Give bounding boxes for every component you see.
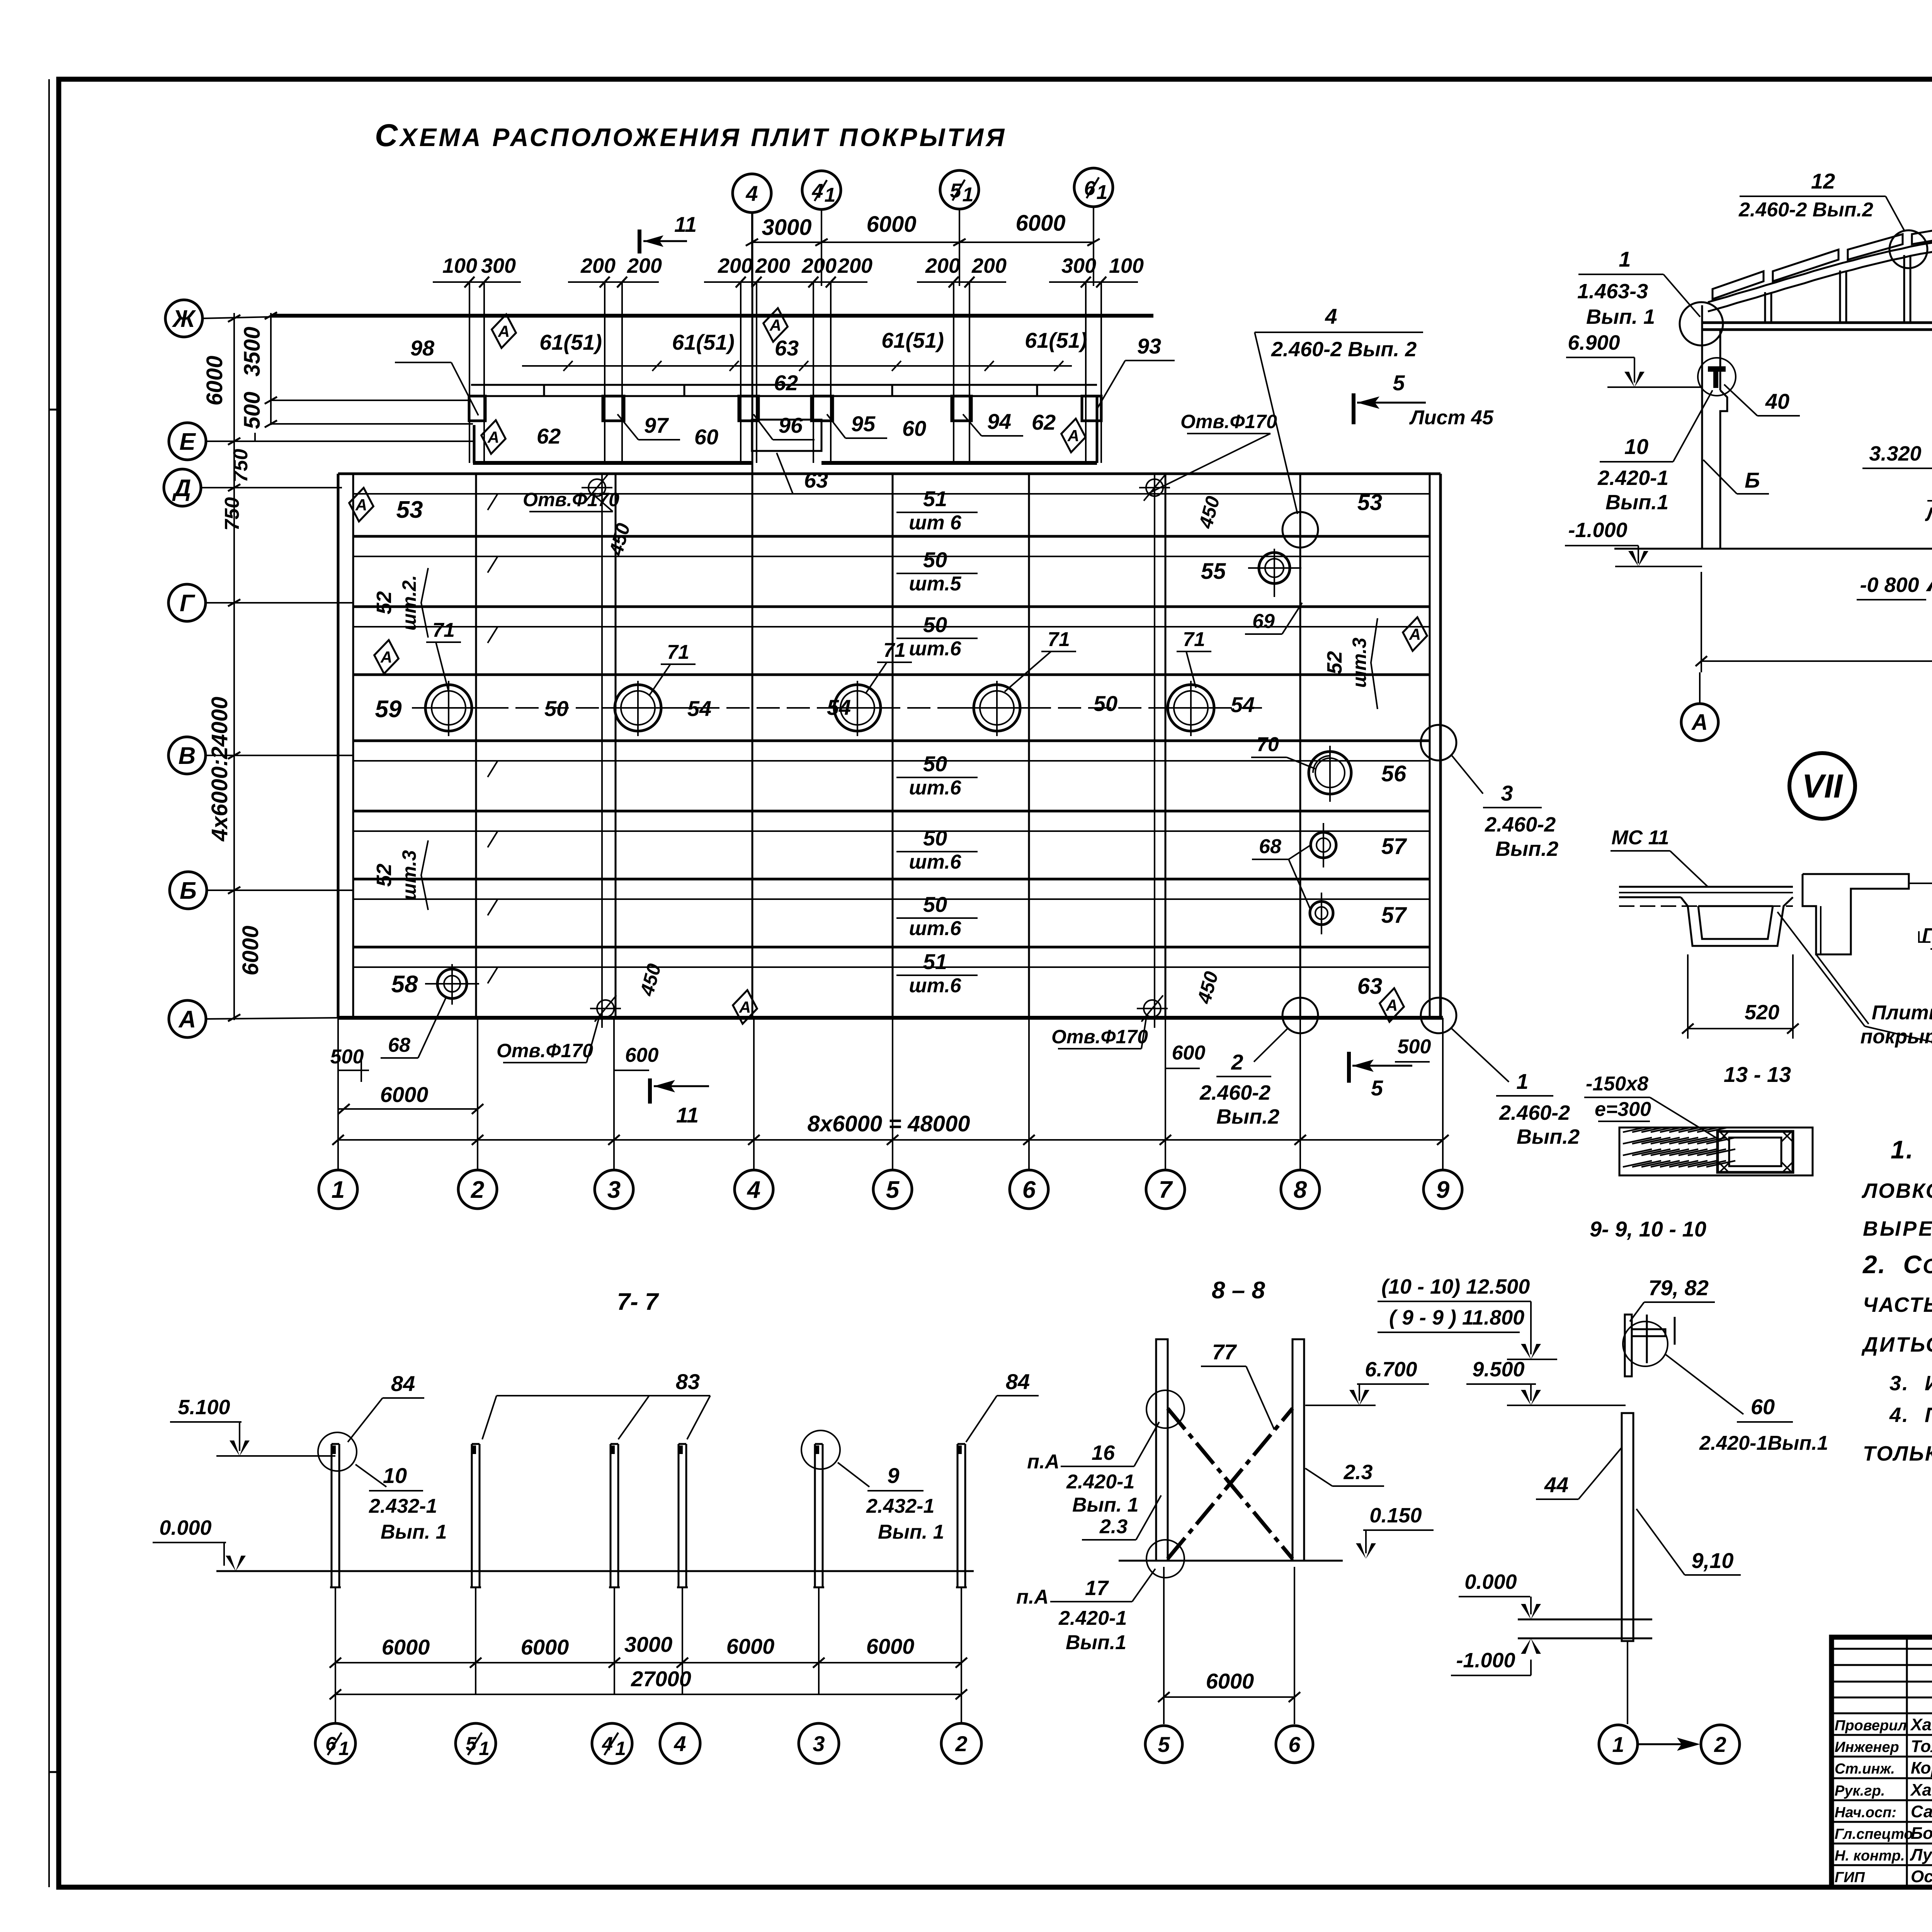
plan: top band labels 61(51) 62 63 93..98 (395, 328, 1175, 494)
plan: left dimension lines and rotated dim texts (202, 312, 277, 1021)
svg-text:А: А (355, 496, 367, 514)
svg-text:ЛОВКОЙ ОТВЕРСТИЙ ПО ПЕРИ: ЛОВКОЙ ОТВЕРСТИЙ ПО ПЕРИМЕТРУ С ПОСЛЕДУЮ… (1861, 1179, 1932, 1202)
svg-text:71: 71 (883, 639, 906, 662)
section 9-9: level -1.000 (1451, 1638, 1541, 1675)
svg-text:шт.6: шт.6 (909, 638, 961, 660)
section 9-9: axis circles 1 -> 2 (1599, 1725, 1740, 1764)
plan: row axis circles Ж Е Д Г В Б А (164, 300, 207, 1037)
svg-text:А: А (739, 998, 751, 1016)
svg-text:ГОСТ 5264-80-Т1-Δ8: ГОСТ 5264-80-Т1-Δ8 (1922, 924, 1932, 947)
svg-text:200: 200 (718, 254, 753, 277)
svg-text:Гл.спецто: Гл.спецто (1835, 1826, 1913, 1842)
svg-text:52: 52 (1323, 651, 1346, 674)
svg-text:Лист 43: Лист 43 (1925, 503, 1932, 525)
svg-text:3.320: 3.320 (1869, 442, 1921, 465)
plan: main field outline (338, 474, 1443, 1018)
svg-text:2. СОЕДИНЕНИЕ МЕТАЛЛИЧЕСКОЙ: 2. СОЕДИНЕНИЕ МЕТАЛЛИЧЕСКОЙ ЧАСТИ С ЖЕЛЕ… (1862, 1250, 1932, 1279)
svg-text:3500: 3500 (240, 327, 265, 376)
svg-text:Отв.Ф170: Отв.Ф170 (523, 489, 619, 510)
section 11-11: level -0.800 mid (1857, 573, 1932, 600)
section 9-9: foundation lines (1518, 1619, 1652, 1638)
svg-text:7: 7 (1159, 1177, 1173, 1203)
plan: field horizontal strip lines (353, 494, 1430, 967)
svg-text:1: 1 (332, 1177, 345, 1203)
svg-text:60: 60 (1751, 1395, 1775, 1419)
svg-text:А: А (487, 428, 499, 446)
plan: leader hooks (488, 494, 889, 983)
svg-text:84: 84 (1006, 1369, 1030, 1394)
svg-text:9: 9 (1436, 1177, 1450, 1203)
svg-text:500: 500 (1398, 1036, 1431, 1058)
svg-text:520: 520 (1745, 1001, 1779, 1024)
section 7-7: dim lines 6000... 27000 (330, 1632, 967, 1724)
svg-text:62: 62 (774, 371, 798, 395)
svg-text:А: А (769, 316, 781, 334)
svg-text:1: 1 (1097, 181, 1108, 204)
plan: small holes 55 56 57 58 70 68 69 (381, 549, 1407, 1058)
svg-text:шт.3: шт.3 (398, 850, 420, 900)
section 11-11: roof plates on top chord (1713, 222, 1932, 301)
section 9-9: label 9,10 (1636, 1509, 1741, 1575)
svg-text:4x6000:24000: 4x6000:24000 (207, 697, 232, 842)
svg-text:0.000: 0.000 (1464, 1570, 1517, 1594)
section 7-7: callout 9 2.432-1 Вып.1 (838, 1463, 944, 1543)
svg-text:84: 84 (391, 1371, 415, 1396)
svg-text:2.432-1: 2.432-1 (866, 1495, 934, 1517)
svg-text:6000: 6000 (1206, 1669, 1254, 1693)
svg-text:3. ИНДЕКС: 3. ИНДЕКС (1889, 1372, 1932, 1395)
svg-text:95: 95 (851, 412, 876, 436)
plan: callout circle 2 (1199, 998, 1318, 1128)
svg-text:Рук.гр.: Рук.гр. (1835, 1783, 1885, 1799)
svg-text:59: 59 (375, 696, 402, 723)
svg-text:Вып. 1: Вып. 1 (1586, 305, 1655, 328)
svg-text:50: 50 (923, 826, 947, 850)
svg-text:750: 750 (230, 449, 252, 483)
svg-text:Ж: Ж (172, 306, 196, 332)
svg-text:10: 10 (383, 1463, 407, 1488)
section 9-9: label 79,82 (1630, 1276, 1715, 1321)
svg-text:6.700: 6.700 (1365, 1358, 1417, 1381)
svg-text:шт.5: шт.5 (909, 573, 961, 595)
svg-text:А: А (1409, 625, 1421, 643)
svg-text:е=300: е=300 (1595, 1098, 1651, 1121)
section 11-11: axis circles А Д Е Ж (1681, 672, 1932, 741)
svg-text:шт.6: шт.6 (909, 777, 961, 799)
section 9-9 10-10 title (1590, 1217, 1706, 1241)
plan: top axis circles 4 4/1 5/1 6/1 (733, 168, 1113, 286)
svg-text:Инженер: Инженер (1835, 1739, 1899, 1755)
section 8-8: callout п.А 16 (1027, 1422, 1161, 1540)
svg-text:71: 71 (1048, 628, 1070, 651)
svg-text:62: 62 (1032, 410, 1056, 434)
svg-text:2.460-2 Вып.2: 2.460-2 Вып.2 (1738, 199, 1873, 221)
svg-text:В: В (179, 743, 196, 769)
svg-text:покрытия: покрытия (1861, 1026, 1932, 1048)
section 8-8: dim 6000 (1158, 1567, 1300, 1724)
svg-text:-150x8: -150x8 (1586, 1073, 1648, 1095)
svg-text:4: 4 (673, 1731, 686, 1756)
section 7-7: labels 84 83 84 (348, 1369, 1039, 1442)
detail 13-13 drawing: welded plate plan (1619, 1128, 1813, 1175)
detail 13-13 title (1724, 1062, 1791, 1087)
plan: marker diamonds А (top band) (490, 313, 519, 350)
svg-text:51: 51 (923, 949, 947, 974)
svg-text:( 9 - 9 ) 11.800: ( 9 - 9 ) 11.800 (1389, 1306, 1524, 1329)
section 11-11: bottom dim 24000 750 6000 (1696, 572, 1932, 672)
svg-text:5: 5 (1393, 371, 1405, 395)
svg-text:шт 6: шт 6 (909, 512, 962, 534)
svg-text:1: 1 (1619, 247, 1631, 271)
svg-text:шт.2.: шт.2. (398, 575, 420, 631)
svg-text:Вып.1: Вып.1 (1066, 1631, 1126, 1654)
svg-text:шт.6: шт.6 (909, 975, 961, 997)
svg-text:3000: 3000 (624, 1632, 673, 1656)
svg-text:9- 9, 10 - 10: 9- 9, 10 - 10 (1590, 1217, 1706, 1241)
section 11-11: level 6.900 (1566, 331, 1702, 387)
plan: top band row Ж line (270, 314, 1153, 318)
svg-text:51: 51 (923, 486, 947, 511)
svg-text:6.900: 6.900 (1568, 331, 1620, 354)
svg-text:Г: Г (180, 590, 196, 617)
svg-text:2.3: 2.3 (1343, 1461, 1372, 1484)
svg-text:1: 1 (338, 1738, 349, 1759)
svg-text:61(51): 61(51) (881, 328, 944, 352)
svg-text:50: 50 (923, 548, 947, 572)
svg-text:Лист 45: Лист 45 (1409, 406, 1494, 429)
svg-text:ГИП: ГИП (1835, 1869, 1865, 1886)
svg-text:ДИТЬСЯ ЗАВОДОМ ИЗГОТОВИТЕЛ: ДИТЬСЯ ЗАВОДОМ ИЗГОТОВИТЕЛЕМ. (1861, 1333, 1932, 1356)
svg-text:Вып. 1: Вып. 1 (878, 1521, 944, 1543)
svg-text:-0 800: -0 800 (1860, 573, 1919, 597)
svg-text:1: 1 (825, 184, 836, 206)
svg-text:50: 50 (923, 612, 947, 637)
svg-text:750: 750 (221, 497, 243, 531)
detail VII drawing: plate sections (1619, 874, 1909, 954)
svg-text:6: 6 (1084, 177, 1096, 200)
section 11-11: callout 10 2.420-1 (1597, 390, 1713, 514)
svg-text:500: 500 (330, 1046, 364, 1068)
svg-text:2.460-2: 2.460-2 (1499, 1101, 1570, 1124)
plan: field vertical grid lines (476, 213, 1300, 1028)
section 8-8 title (1212, 1277, 1265, 1304)
plan: dim 500 right bottom (1395, 1036, 1431, 1062)
svg-text:2.420-1: 2.420-1 (1597, 466, 1668, 490)
section 11-11: floor line 0.000 (1614, 548, 1932, 550)
svg-text:5: 5 (1158, 1732, 1170, 1757)
svg-text:68: 68 (1259, 835, 1281, 858)
svg-text:63: 63 (804, 468, 828, 492)
svg-text:58: 58 (391, 971, 418, 998)
detail 12-12 labels (1919, 812, 1932, 954)
section 9-9: top bracket with circle (1623, 1315, 1675, 1376)
svg-text:Плиты: Плиты (1872, 1002, 1932, 1024)
title block signature grid (1832, 1637, 1932, 1887)
svg-text:Ст.инж.: Ст.инж. (1835, 1761, 1895, 1777)
svg-text:6000: 6000 (1015, 211, 1065, 236)
svg-text:97: 97 (644, 413, 669, 437)
svg-text:200: 200 (925, 254, 960, 277)
svg-text:СХЕМА РАСПОЛОЖЕНИЯ ПЛИТ ПОК: СХЕМА РАСПОЛОЖЕНИЯ ПЛИТ ПОКРЫТИЯ (375, 118, 1007, 153)
svg-text:А: А (1386, 996, 1398, 1014)
section 7-7 title (617, 1289, 659, 1315)
svg-text:2.432-1: 2.432-1 (369, 1495, 437, 1517)
svg-text:3: 3 (607, 1177, 621, 1203)
svg-text:57: 57 (1381, 834, 1407, 859)
svg-text:52: 52 (372, 864, 396, 887)
svg-text:5: 5 (1371, 1076, 1383, 1100)
svg-text:Вып. 1: Вып. 1 (1072, 1494, 1139, 1516)
section 8-8: label 2.3 right (1305, 1461, 1384, 1486)
svg-text:ВЫРЕЗКОЙ АРМАТУРЫ.: ВЫРЕЗКОЙ АРМАТУРЫ. (1863, 1216, 1932, 1240)
svg-text:50: 50 (923, 892, 947, 917)
svg-text:61(51): 61(51) (672, 330, 735, 354)
svg-text:А: А (498, 322, 510, 340)
svg-text:71: 71 (667, 641, 689, 663)
main title: Схема расположения плит покрытия (375, 118, 1007, 153)
svg-text:6: 6 (1288, 1732, 1301, 1757)
svg-text:6000: 6000 (380, 1082, 429, 1107)
section 8-8: level 6.700 (1305, 1358, 1429, 1405)
svg-text:2.460-2 Вып. 2: 2.460-2 Вып. 2 (1271, 338, 1417, 361)
svg-text:Толмачёва: Толмачёва (1911, 1737, 1932, 1756)
svg-text:83: 83 (676, 1369, 700, 1394)
svg-text:2.460-2: 2.460-2 (1485, 813, 1556, 836)
svg-text:61(51): 61(51) (539, 330, 602, 354)
svg-text:11: 11 (676, 1103, 699, 1127)
svg-text:50: 50 (544, 696, 568, 721)
svg-text:шт.6: шт.6 (909, 917, 961, 940)
svg-text:шт.3: шт.3 (1349, 638, 1370, 688)
plan: section mark 5 bottom (1349, 1052, 1412, 1100)
plan: section mark 11 bottom (650, 1078, 709, 1127)
svg-text:Б: Б (1745, 468, 1760, 492)
svg-text:2: 2 (1714, 1732, 1726, 1757)
svg-text:54: 54 (1231, 692, 1255, 717)
svg-text:Вып.2: Вып.2 (1495, 837, 1558, 861)
section 11-11: callout 12 (1738, 169, 1927, 268)
detail VII circle (1789, 753, 1855, 819)
svg-text:62: 62 (537, 424, 561, 448)
svg-text:VII: VII (1802, 768, 1843, 805)
svg-text:69: 69 (1252, 610, 1275, 633)
svg-text:1: 1 (1612, 1732, 1624, 1757)
svg-text:79, 82: 79, 82 (1648, 1276, 1709, 1300)
svg-text:100: 100 (1109, 254, 1144, 277)
svg-text:-1.000: -1.000 (1568, 519, 1627, 542)
svg-text:200: 200 (971, 254, 1007, 277)
svg-text:А: А (380, 648, 392, 666)
section 8-8: ground line (1119, 1560, 1343, 1562)
detail 13-13 labels (1584, 1073, 1719, 1140)
svg-text:2.420-1Вып.1: 2.420-1Вып.1 (1699, 1432, 1828, 1454)
svg-text:61(51): 61(51) (1025, 328, 1087, 352)
svg-text:16: 16 (1092, 1441, 1115, 1464)
svg-text:40: 40 (1765, 389, 1789, 413)
svg-text:600: 600 (1172, 1042, 1206, 1064)
svg-text:12: 12 (1811, 169, 1835, 193)
section 9-9: level 0.000 (1459, 1570, 1541, 1619)
section 11-11: callout 1 1.463-3 (1577, 247, 1700, 328)
svg-text:300: 300 (481, 254, 516, 277)
svg-text:70: 70 (1257, 733, 1279, 756)
plan: callout circle 3 (1421, 725, 1558, 861)
plan: section mark 5 with Лист 45 (1354, 371, 1494, 429)
section 8-8: callout п.А 17 (1016, 1569, 1155, 1654)
section 8-8: label 77 (1201, 1340, 1274, 1430)
svg-text:2: 2 (471, 1177, 484, 1203)
svg-text:200: 200 (627, 254, 662, 277)
svg-text:7- 7: 7- 7 (617, 1289, 659, 1315)
svg-text:4: 4 (812, 180, 823, 202)
svg-text:Луценко: Луценко (1910, 1845, 1932, 1864)
plan: top band plate strip (271, 361, 1097, 463)
section 7-7: ground line (216, 1570, 974, 1572)
svg-text:8 – 8: 8 – 8 (1212, 1277, 1265, 1304)
svg-text:4: 4 (747, 1177, 760, 1203)
svg-text:Вып.2: Вып.2 (1216, 1105, 1279, 1128)
section 9-9: level 9.500 (1466, 1358, 1626, 1405)
svg-text:Вып.1: Вып.1 (1605, 491, 1668, 514)
section 11-11: truss web verticals (1765, 243, 1932, 323)
svg-text:500: 500 (240, 392, 265, 429)
svg-text:50: 50 (1094, 691, 1117, 716)
plan: row axis lines (201, 317, 474, 1019)
svg-text:А: А (1067, 427, 1079, 445)
svg-text:Д: Д (172, 475, 191, 502)
svg-text:6: 6 (1022, 1177, 1036, 1203)
svg-text:100: 100 (442, 254, 477, 277)
svg-text:56: 56 (1381, 761, 1406, 786)
svg-text:6000: 6000 (202, 355, 227, 405)
svg-text:0.000: 0.000 (159, 1516, 211, 1539)
svg-text:17: 17 (1085, 1577, 1109, 1600)
svg-text:5: 5 (886, 1177, 900, 1203)
svg-text:200: 200 (755, 254, 790, 277)
svg-text:Вып. 1: Вып. 1 (381, 1521, 447, 1543)
plan: strip labels 50 шт.6 (896, 486, 978, 997)
title block outer (1832, 1637, 1932, 1887)
plan: extra dim ticks on 48000 line (608, 1135, 1306, 1145)
plan: big opening circles with 71 leaders (412, 619, 1228, 736)
svg-text:71: 71 (1183, 628, 1205, 651)
section 9-9: column (1622, 1413, 1633, 1724)
svg-text:0.150: 0.150 (1369, 1504, 1422, 1527)
plan: top dim line 3000 6000 6000 (746, 211, 1100, 246)
section 8-8: columns (1156, 1339, 1304, 1561)
svg-text:Отв.Ф170: Отв.Ф170 (1180, 411, 1277, 432)
svg-text:Ханин: Ханин (1910, 1715, 1932, 1734)
plan: rotated labels 52 шт (372, 568, 1378, 910)
svg-text:Боярченко: Боярченко (1911, 1824, 1932, 1843)
svg-text:Б: Б (180, 878, 197, 904)
plan: top small dims 100 300 200... (433, 254, 1144, 463)
section 8-8: X bracing (1146, 1390, 1293, 1578)
svg-text:9,10: 9,10 (1692, 1548, 1734, 1573)
svg-text:60: 60 (902, 416, 926, 440)
svg-text:ЧАСТЬЮ СОСТАВНЫХ КОЛОНН ПО: ЧАСТЬЮ СОСТАВНЫХ КОЛОНН ПОЗ. 8-12 ДОЛЖНО… (1863, 1293, 1932, 1316)
svg-text:Саакьянц: Саакьянц (1911, 1802, 1932, 1821)
svg-text:200: 200 (580, 254, 616, 277)
svg-text:шт.6: шт.6 (909, 851, 961, 873)
svg-text:4: 4 (745, 181, 758, 206)
svg-text:А: А (1691, 710, 1708, 735)
section 11-11: level 3.320 (1862, 442, 1932, 468)
plan: top band plate end blocks (469, 396, 1101, 421)
section 11-11: left column Б with bracket 40 (1680, 302, 1800, 549)
svg-text:6000: 6000 (382, 1635, 430, 1659)
svg-text:1: 1 (479, 1738, 490, 1759)
plan: marker diamonds А (field) (347, 486, 376, 523)
svg-text:2: 2 (1231, 1050, 1243, 1074)
svg-text:1: 1 (963, 184, 974, 206)
svg-text:2: 2 (955, 1731, 967, 1756)
svg-text:1: 1 (615, 1738, 626, 1759)
section 8-8: level 0.150 (1356, 1504, 1434, 1559)
svg-text:50: 50 (923, 752, 947, 776)
svg-text:6000: 6000 (726, 1634, 775, 1658)
svg-text:6000: 6000 (238, 925, 263, 975)
svg-text:6000: 6000 (866, 212, 916, 237)
svg-text:27000: 27000 (631, 1667, 691, 1691)
svg-text:11: 11 (674, 212, 697, 236)
svg-text:54: 54 (827, 695, 851, 719)
svg-text:5: 5 (950, 180, 962, 202)
section 11-11: level -1.000 left (1565, 519, 1702, 566)
svg-text:44: 44 (1544, 1473, 1568, 1497)
plan: callout circle 4 (2.460-2 Вып.2) (1255, 304, 1423, 548)
svg-text:А: А (178, 1006, 196, 1033)
svg-text:600: 600 (625, 1044, 659, 1066)
svg-text:Отв.Ф170: Отв.Ф170 (1051, 1026, 1148, 1048)
svg-text:3: 3 (1501, 781, 1513, 805)
svg-text:200: 200 (837, 254, 872, 277)
svg-text:3: 3 (813, 1731, 825, 1756)
section 7-7: bottom axis circles (315, 1723, 981, 1764)
plan: bay labels 53 63 58 59 etc (375, 490, 1383, 999)
svg-text:Коротенко: Коротенко (1911, 1759, 1932, 1777)
svg-text:Проверил: Проверил (1835, 1718, 1907, 1734)
svg-text:Отв.Ф170: Отв.Ф170 (497, 1040, 593, 1061)
svg-text:93: 93 (1137, 334, 1161, 358)
svg-text:-1.000: -1.000 (1456, 1649, 1515, 1672)
plan: hole callouts Отв.Ф170 (497, 411, 1277, 1070)
svg-text:3000: 3000 (762, 215, 811, 240)
plan: column axis circles 1-9 (319, 1018, 1462, 1209)
svg-text:63: 63 (775, 336, 799, 360)
svg-text:1: 1 (1516, 1069, 1528, 1094)
svg-text:Осташевски: Осташевски (1911, 1867, 1932, 1886)
plan: bottom dimension lines (330, 1036, 1449, 1150)
svg-text:5.100: 5.100 (178, 1396, 230, 1419)
section 7-7: level 5.100 (170, 1396, 335, 1456)
svg-text:53: 53 (1357, 490, 1383, 515)
svg-text:4. ПЛИТЫ ПОЗ. 51 У ОСИ „ Ж": 4. ПЛИТЫ ПОЗ. 51 У ОСИ „ Ж", УКАЗАННЫЕ В… (1889, 1403, 1932, 1427)
section 11-11: truss bottom chord 43 (1701, 323, 1932, 330)
svg-text:ТОЛЬКО ДЛЯ II СНЕГОВОГО: ТОЛЬКО ДЛЯ II СНЕГОВОГО РАЙОНА. (1863, 1441, 1932, 1465)
svg-text:63: 63 (1357, 974, 1383, 999)
svg-text:6000: 6000 (866, 1634, 915, 1658)
section 11-11: labels I П.А.II Ш under platform (1925, 475, 1932, 548)
section 7-7: level 0.000 (153, 1516, 246, 1571)
svg-text:55: 55 (1201, 559, 1226, 584)
svg-text:Вып.2: Вып.2 (1517, 1125, 1580, 1148)
svg-text:54: 54 (687, 696, 711, 721)
section 11-11: truss top chord arc (1708, 234, 1932, 311)
svg-text:9.500: 9.500 (1472, 1358, 1524, 1381)
svg-text:8x6000 = 48000: 8x6000 = 48000 (808, 1111, 970, 1136)
svg-text:9: 9 (887, 1463, 899, 1488)
